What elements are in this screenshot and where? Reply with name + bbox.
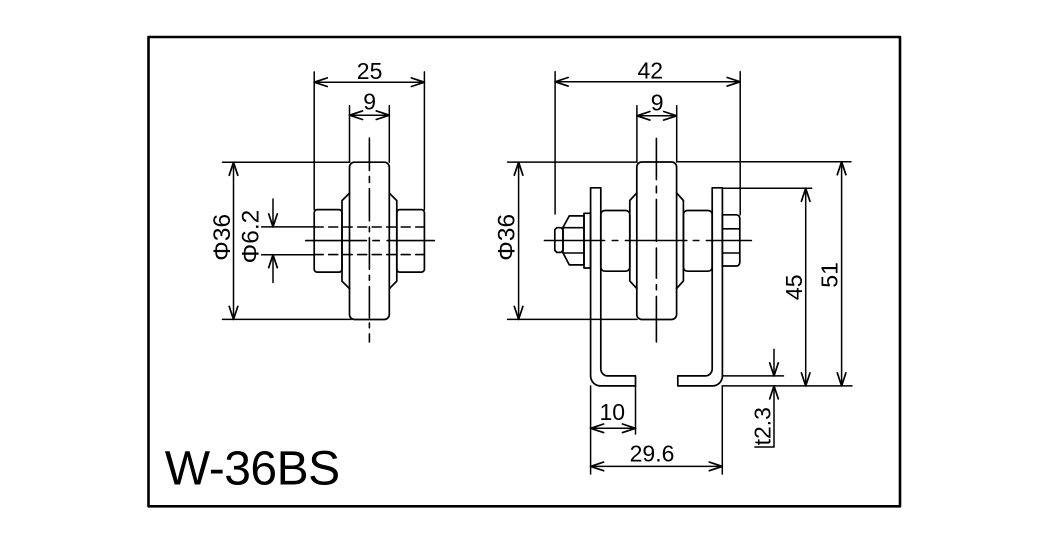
dimension 29.6: dimension line	[591, 465, 723, 467]
dimension D6.2: dimension line with outside arrows	[272, 199, 274, 283]
left L-bracket	[591, 188, 636, 386]
right L-bracket	[678, 188, 723, 386]
svg-text:9: 9	[651, 89, 664, 115]
dimension 42: extension lines	[555, 72, 740, 215]
dimensions 45/51: bottom extension line (bracket bottom)	[722, 385, 852, 387]
right view left hub	[601, 211, 630, 272]
dimension D36 (right view): extension lines	[508, 162, 637, 319]
right view right hub	[683, 211, 712, 272]
dimension D36: arrowheads	[229, 162, 238, 319]
right view bearing disc right edge with chamfers	[677, 193, 684, 289]
svg-text:Φ6.2: Φ6.2	[238, 210, 265, 264]
right view wheel disc	[637, 162, 677, 320]
dimension 29.6: extension line right	[721, 386, 723, 474]
frame border	[149, 37, 901, 506]
svg-text:t2.3: t2.3	[750, 407, 776, 445]
dimension 29.6: arrowheads	[591, 462, 723, 471]
dimension 51: top extension line (wheel top tangent)	[677, 161, 851, 163]
dimension t2.3: arrow lines	[755, 349, 774, 447]
dimension 45: arrowheads	[801, 188, 810, 386]
dimension D6.2: arrowheads	[269, 214, 278, 268]
dimension 10: dimension line	[591, 427, 636, 429]
right view vertical centerline	[655, 138, 657, 342]
svg-text:W-36BS: W-36BS	[165, 443, 340, 496]
left view right hub	[397, 210, 425, 273]
dimension 10: extension lines	[591, 386, 636, 474]
svg-text:29.6: 29.6	[630, 441, 675, 467]
hex nut facet lines	[722, 229, 740, 253]
dimension 10: arrowheads	[591, 424, 636, 433]
dimension D6.2: extension lines	[262, 227, 315, 255]
dimension 25: arrowheads	[314, 78, 424, 87]
dimension 42: dimension line	[555, 81, 740, 83]
svg-text:Φ36: Φ36	[494, 214, 521, 261]
dimension D36 (right view): dimension line	[518, 162, 520, 319]
dimension texts	[209, 58, 843, 467]
left view left hub	[314, 210, 342, 273]
dimension 9: dimension line	[350, 114, 390, 116]
left view vertical centerline	[368, 138, 370, 342]
svg-text:25: 25	[357, 58, 383, 84]
dimension 45: top extension line (bracket top)	[722, 187, 811, 189]
dimension t2.3: arrowheads	[770, 363, 779, 399]
dimension D36: dimension line	[233, 162, 235, 319]
left view bearing disc left edge with chamfers	[342, 193, 350, 289]
dimension 51: arrowheads	[837, 162, 846, 386]
svg-text:10: 10	[600, 399, 626, 425]
svg-text:Φ36: Φ36	[209, 214, 236, 261]
svg-text:51: 51	[817, 262, 843, 288]
dimension D36 (left view): extension lines	[223, 162, 352, 319]
left view bore hidden line bottom	[314, 254, 424, 256]
dimension D36 (right view): arrowheads	[514, 162, 523, 319]
dimension 9 (right view): extension lines	[637, 106, 677, 162]
right view bearing disc left edge with chamfers	[630, 193, 637, 289]
svg-text:45: 45	[781, 275, 807, 301]
dimension 9 (right view): arrowheads	[637, 112, 677, 121]
left view horizontal centerline	[306, 240, 435, 242]
hex nut	[722, 215, 740, 266]
dimension 25: dimension line	[314, 81, 424, 83]
dimension 51: dimension line	[841, 162, 843, 386]
dimension 9: arrowheads	[350, 111, 390, 120]
dimension 25: extension lines	[314, 72, 424, 210]
left view wheel disc (9 wide, D36)	[350, 162, 390, 319]
dimension 42: arrowheads	[555, 78, 740, 87]
left view bearing disc right edge with chamfers	[389, 193, 397, 289]
hex bolt head facet lines	[563, 228, 584, 253]
dimension t2.3: top extension line	[722, 375, 783, 377]
dimension 45: dimension line	[805, 188, 807, 386]
left view bore hidden line top	[314, 226, 424, 228]
hex bolt head	[563, 216, 584, 265]
right view horizontal centerline	[544, 240, 751, 242]
washer	[584, 213, 591, 268]
svg-text:42: 42	[638, 58, 664, 84]
dimension 9 (right view): dimension line	[637, 115, 677, 117]
svg-text:9: 9	[363, 89, 376, 115]
dimension 9 (left view): extension lines	[350, 106, 390, 163]
axle bolt tip	[555, 228, 563, 253]
